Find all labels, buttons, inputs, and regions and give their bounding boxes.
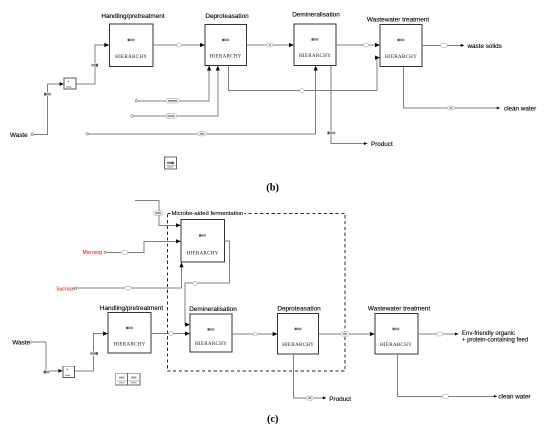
wire Wastewater to waste solids outlet (b) [422,44,465,47]
svg-text:HIERARCHY: HIERARCHY [380,342,412,348]
svg-text:Deproteasation: Deproteasation [205,13,249,20]
svg-text:HIERARCHY: HIERARCHY [187,251,219,257]
svg-text:HIERARCHY: HIERARCHY [299,53,331,59]
stream label 1SLUR (c) [43,370,49,374]
block H Handling/pretreatment (c) [100,305,163,353]
svg-text:HIERARCHY: HIERARCHY [210,54,242,60]
svg-text:HIERARCHY: HIERARCHY [115,54,147,60]
stream label HCL (b) [198,132,206,136]
stream label CLEANW (c) [443,394,449,398]
node Sucrose source (c) [75,287,77,289]
svg-text:HIERARCHY: HIERARCHY [282,342,314,348]
arrowhead into Demineralisation (c) [185,332,190,336]
svg-text:waste solids: waste solids [467,43,502,50]
arrowhead into Wastewater B4 (b) [375,43,380,47]
stream label 5 (b) [364,43,369,47]
svg-text:Demineralisation: Demineralisation [292,12,340,19]
arrowhead into Wastewater (c) [370,332,375,336]
wire Deproteasation to Wastewater (c) [319,332,375,336]
wire Deproteasation recycle to Wastewater (b) [228,56,380,91]
svg-text:Deproteasation: Deproteasation [277,306,321,313]
label Env-friendly organic feed (c) [462,331,528,344]
block B3 Demineralisation (b) [292,12,340,66]
DIAGRAM-B [10,12,536,194]
wire NaOH feed to Deproteasation (b) [138,66,211,101]
svg-text:HIERARCHY: HIERARCHY [195,341,227,347]
wire Deproteasation to Demineralisation (b) [247,43,295,47]
wire Sucrose feed to fermentation bottom (c) [77,262,184,288]
wire Wastewater bottom to clean water (c) [397,354,497,398]
wire Demineralisation to Wastewater (b) [336,43,380,47]
node waste source circle (b) [31,133,34,136]
arrowhead water into B2 bottom (b) [216,66,220,71]
svg-text:+ protein-containing feed: + protein-containing feed [462,338,528,344]
block B1 Handling/pretreatment (b) [101,13,164,67]
wire fermentation recycle to Demineralisation (c) [185,241,230,327]
svg-text:Wastewater treatment: Wastewater treatment [367,17,429,24]
svg-text:(c): (c) [267,414,278,425]
stream label PROT (b) [300,89,304,93]
node water source circle (b) [131,115,134,118]
wire Demineralisation to Deproteasation (c) [232,332,278,336]
stream label PRODUCT (c) [306,396,313,400]
node waste source (c) [30,341,32,343]
svg-text:Env-friendly organic: Env-friendly organic [462,331,515,337]
svg-text:clean water: clean water [504,105,536,112]
arrowhead into Deproteasation (c) [273,332,278,336]
dashed boundary Microbe-aided fermentation (c) [167,208,345,372]
stream label PRODUCT (b) [327,131,336,135]
svg-text:Handling/pretreatment: Handling/pretreatment [100,305,163,312]
arrowhead HCl into B3 bottom (b) [314,66,318,71]
svg-text:(b): (b) [266,182,279,193]
arrowhead into fermentation left top (c) [176,223,181,227]
wire waste feed (c) [32,342,63,373]
arrowhead into Handling B1 (b) [104,43,109,47]
block D1 Demineralisation (c) [189,306,237,352]
stream label 2FEED (c) [90,352,98,356]
DIAGRAM-C [12,200,530,424]
wire Wastewater to feed outlet (c) [418,333,459,336]
wire mixer S2 to Handling (c) [74,332,108,371]
stream label 4 (b) [267,43,273,47]
svg-text:Wastewater treatment: Wastewater treatment [368,306,430,313]
wire waste feed (b) [33,82,64,134]
svg-text:Microorg: Microorg [83,250,103,256]
arrowhead into Handling (c) [103,332,108,336]
wire Demineralisation bottom to Product (b) [331,66,368,146]
stream label NAOH (b) [166,99,180,103]
arrowhead into mixer S2 (c) [58,369,62,373]
block W Wastewater treatment (c) [368,306,430,355]
stream label 4 (c) [253,332,257,336]
mixer S1 (b) [64,78,76,89]
stream label CLEANW (b) [447,106,454,110]
wire HCl feed to Demineralisation (b) [88,66,317,134]
svg-text:HIERARCHY: HIERARCHY [113,342,145,348]
wire water feed to Deproteasation (b) [133,66,220,117]
arrowhead recycle into Wastewater (b) [375,56,380,60]
stream label 3 (b) [177,43,182,47]
arrowhead into mixer S1 (b) [60,82,64,86]
svg-text:clean water: clean water [498,394,530,401]
block D2 Deproteasation (c) [277,306,321,355]
stream label FERM (c) [193,281,198,285]
node HCl source circle (b) [86,133,88,135]
svg-text:Waste: Waste [12,340,30,347]
svg-text:Demineralisation: Demineralisation [189,306,237,313]
svg-text:Microbe-aided fermentation: Microbe-aided fermentation [172,211,244,217]
svg-text:HIERARCHY: HIERARCHY [385,54,417,60]
stream label 5 (c) [341,332,349,336]
node Microorg source (c) [104,251,106,253]
stream label 3 (c) [169,332,173,336]
arrowhead recycle into Demineralisation left top (c) [185,323,190,327]
block B2 Deproteasation (b) [205,13,249,66]
wire enzyme feed to fermentation (c) [135,200,181,227]
wire Microorg feed to fermentation (c) [106,239,181,252]
stream label SOLIDS (b) [441,43,448,47]
legend blocks pair (c) [116,373,140,385]
wire Handling to Deproteasation (b) [153,43,205,47]
stream label ENZ (c) [153,211,163,215]
svg-text:Product: Product [371,141,393,148]
arrowhead into Demineralisation B3 (b) [289,43,294,47]
arrowhead into fermentation bottom (c) [179,262,183,267]
mixer S2 (c) [63,366,75,377]
stream label 2FEED (b) [91,63,98,67]
arrowhead NaOH into B2 bottom (b) [207,66,211,71]
stream label 1SLUR (b) [44,92,52,96]
node NaOH source circle (b) [135,100,138,103]
svg-text:Handling/pretreatment: Handling/pretreatment [101,13,164,20]
stream label MICRO (c) [122,250,128,254]
svg-text:Waste: Waste [10,132,28,139]
wire Handling to Demineralisation (c) [151,332,190,336]
block B4 Wastewater treatment (b) [367,17,429,67]
arrowhead into Deproteasation B2 (b) [200,43,205,47]
stream label SUCR (c) [125,286,131,290]
stream label WATER (b) [165,114,177,118]
svg-text:Product: Product [329,396,351,403]
block F fermentation HIERARCHY (c) [181,219,224,262]
wire mixer S1 to Handling (b) [76,43,109,84]
arrowhead into fermentation left mid (c) [176,239,181,243]
svg-text:Sucrose: Sucrose [56,286,75,292]
legend block single (b) [165,157,177,169]
wire Deproteasation bottom to Product (c) [293,354,326,399]
stream label FEED (c) [437,332,443,336]
wire Wastewater bottom to clean water (b) [404,67,501,110]
